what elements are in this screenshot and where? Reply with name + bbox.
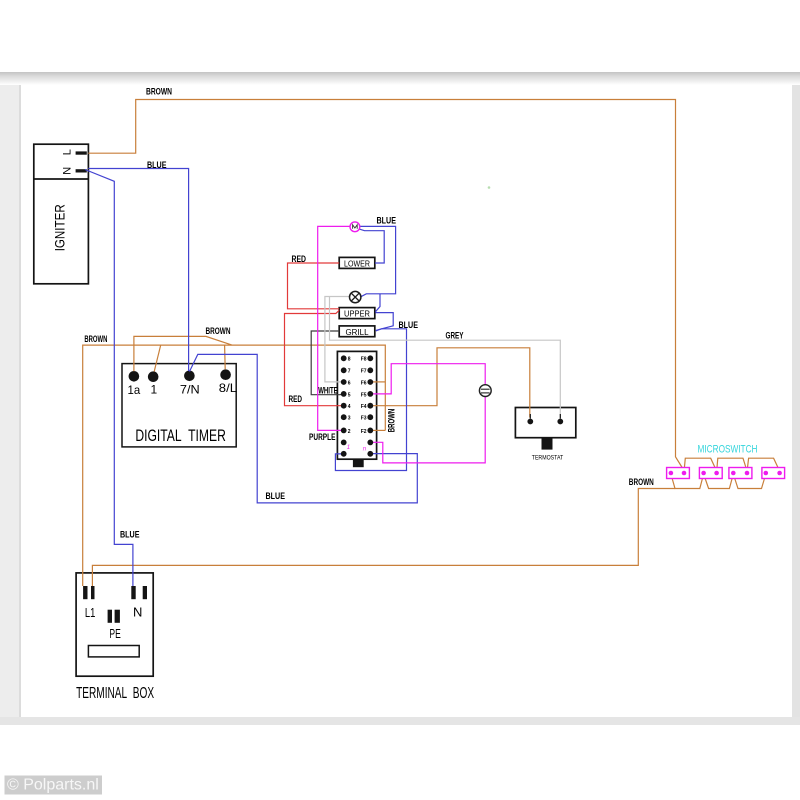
connector block — [337, 351, 376, 459]
svg-text:TERMOSTAT: TERMOSTAT — [532, 455, 564, 462]
stray green dot — [488, 186, 491, 189]
connector pin numbers left — [348, 357, 351, 435]
svg-text:BROWN: BROWN — [206, 326, 231, 337]
terminal box — [76, 573, 153, 676]
heating element LOWER — [339, 257, 375, 268]
wire brown: diagonal into timer 1 — [154, 345, 161, 371]
svg-text:N: N — [62, 167, 74, 175]
svg-text:TERMINAL BOX: TERMINAL BOX — [76, 685, 154, 702]
svg-text:GRILL: GRILL — [346, 327, 369, 337]
svg-text:DIGITAL TIMER: DIGITAL TIMER — [135, 427, 226, 445]
svg-text:1: 1 — [347, 445, 350, 451]
wire blue: lamp junction to UPPER right — [375, 294, 380, 312]
wire brown: connector pin5 to thermostat — [371, 348, 530, 418]
svg-text:© Polparts.nl: © Polparts.nl — [7, 777, 99, 794]
svg-text:7: 7 — [348, 369, 351, 375]
wire blue: igniter N to timer 7/N — [88, 169, 188, 372]
svg-text:F3: F3 — [361, 416, 367, 422]
svg-text:L: L — [62, 149, 74, 155]
svg-text:8: 8 — [348, 357, 351, 363]
digital timer box — [122, 364, 236, 447]
svg-text:F8: F8 — [361, 357, 367, 363]
wire brown: bottom bridge sw3-sw4 — [733, 474, 766, 489]
wire brown: bottom bridge sw1-sw2 — [671, 474, 704, 489]
microswitch sw3 — [729, 468, 752, 479]
svg-text:F6: F6 — [361, 380, 367, 386]
lamp symbol — [350, 291, 361, 302]
wire red: LOWER left down to connector pin5 left — [288, 263, 340, 309]
timer terminal 1 — [148, 371, 159, 382]
wire brown: igniter L to top run to microswitch sw1 — [88, 100, 684, 471]
wire brown: connector pin3 right stub — [371, 381, 386, 383]
igniter terminal N — [76, 169, 87, 172]
svg-text:BROWN: BROWN — [146, 87, 172, 98]
wire brown: top bridge sw1-sw2 — [684, 458, 717, 472]
wire brown: connector pin7 right stub — [373, 429, 385, 431]
microswitch sw4 — [762, 468, 785, 479]
wire blue: igniter N to terminal box N — [85, 170, 133, 587]
svg-text:N: N — [133, 605, 142, 620]
right scan strip — [792, 75, 800, 717]
wire grey: branch to thermostat right — [330, 297, 561, 418]
wire dark (white net): GRILL left to connector pin4 left — [311, 331, 344, 395]
svg-text:RED: RED — [292, 254, 307, 265]
bottom scan band — [0, 717, 800, 725]
heating element UPPER — [339, 308, 375, 319]
watermark box — [5, 776, 103, 795]
wire red: branch to UPPER left — [285, 310, 344, 405]
svg-text:BROWN: BROWN — [629, 477, 654, 488]
svg-text:RED: RED — [289, 394, 303, 405]
svg-text:LOWER: LOWER — [344, 259, 370, 269]
wire labels — [84, 87, 653, 541]
wire blue: UPPER right to GRILL right — [375, 313, 393, 331]
svg-text:3: 3 — [348, 416, 351, 422]
wire blue: GRILL right down to connector pin9 left — [335, 329, 406, 471]
svg-text:BROWN: BROWN — [386, 409, 397, 433]
terminal box slot — [88, 646, 139, 657]
wire brown: top bridge sw3-sw4 — [747, 458, 780, 472]
wire blue: fan to long vertical to lamp — [360, 226, 396, 296]
svg-text:BLUE: BLUE — [147, 160, 167, 171]
svg-text:F5: F5 — [361, 392, 367, 398]
svg-text:BROWN: BROWN — [84, 334, 107, 345]
svg-text:WHITE: WHITE — [318, 386, 338, 397]
buzzer symbol — [479, 385, 491, 397]
svg-text:BLUE: BLUE — [377, 216, 397, 227]
svg-text:GREY: GREY — [446, 331, 464, 342]
timer terminal 7/N — [184, 371, 195, 382]
connector pins right column — [367, 355, 373, 456]
svg-text:5: 5 — [348, 392, 351, 398]
svg-text:UPPER: UPPER — [344, 309, 370, 319]
thermostat tab — [542, 438, 553, 450]
wire grey: lamp left to connector pin3 left — [325, 297, 351, 382]
terminal N bars — [131, 586, 135, 599]
left scan strip — [0, 75, 21, 717]
svg-text:1: 1 — [151, 383, 158, 397]
thermostat box — [515, 408, 575, 438]
wire brown: microswitch return to terminal box L1 — [92, 489, 675, 587]
heating element GRILL — [339, 326, 375, 337]
wire magenta: connector pin4 right to buzzer loop to pin8 right — [371, 364, 485, 463]
svg-text:BLUE: BLUE — [399, 320, 419, 331]
connector tab — [353, 459, 364, 467]
svg-text:F4: F4 — [361, 404, 367, 410]
svg-text:1a: 1a — [128, 383, 141, 397]
wire brown: bottom bridge sw2-sw3 — [704, 474, 734, 489]
svg-text:IGNITER: IGNITER — [52, 204, 68, 251]
microswitch sw2 — [699, 468, 722, 479]
svg-text:PURPLE: PURPLE — [309, 432, 336, 443]
svg-text:BLUE: BLUE — [266, 491, 286, 502]
wire purple: fan left down to connector pin7 left — [318, 226, 351, 430]
wire brown: top bridge sw2-sw3 — [717, 458, 747, 472]
connector pins left column — [341, 355, 347, 456]
svg-text:7/N: 7/N — [180, 383, 200, 397]
thermostat terminal right — [557, 419, 563, 425]
wire blue: timer 7/N to connector pin9 right — [190, 354, 418, 503]
svg-text:2: 2 — [348, 429, 351, 435]
svg-text:MICROSWITCH: MICROSWITCH — [698, 443, 758, 455]
wire brown: run B timer 1a jog — [134, 336, 232, 371]
top scan band — [0, 72, 800, 85]
connector pin numbers right — [361, 357, 367, 435]
svg-text:4: 4 — [348, 404, 351, 410]
svg-text:8/L: 8/L — [219, 381, 238, 395]
svg-text:BLUE: BLUE — [120, 530, 140, 541]
terminal PE bars — [108, 610, 112, 623]
svg-text:F7: F7 — [361, 369, 367, 375]
terminal L1 bars — [83, 586, 87, 599]
microswitch sw1 — [667, 468, 690, 479]
svg-text:PE: PE — [109, 626, 121, 641]
thermostat terminal left — [527, 419, 533, 425]
wire brown: run A timer to terminal box L1 and connector — [83, 345, 386, 586]
igniter terminal L — [76, 151, 87, 154]
wire brown: stub into timer 8/L — [224, 345, 227, 369]
timer terminal 8/L — [220, 369, 231, 380]
svg-text:L1: L1 — [85, 605, 96, 620]
wire blue: fan lower branch to LOWER right — [359, 229, 384, 263]
timer terminal 1a — [129, 371, 140, 382]
fan symbol M — [350, 222, 360, 232]
svg-text:6: 6 — [348, 380, 351, 386]
igniter box — [34, 144, 89, 284]
svg-text:F2: F2 — [361, 429, 367, 435]
